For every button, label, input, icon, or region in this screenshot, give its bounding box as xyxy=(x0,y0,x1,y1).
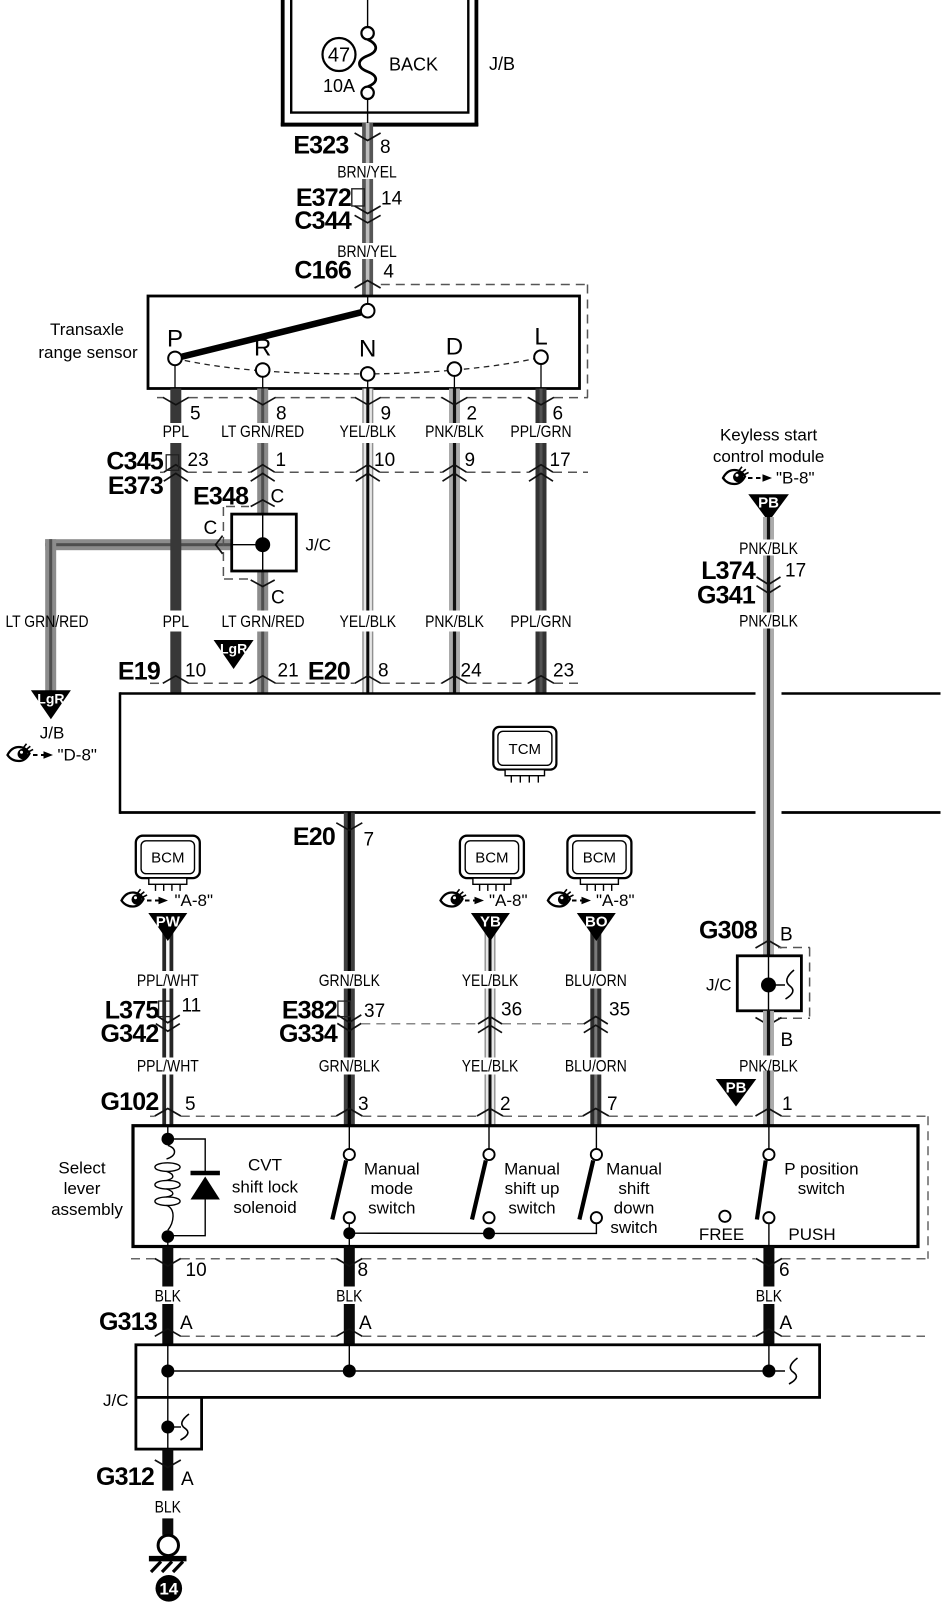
wire YEL/BLK middle segment xyxy=(485,989,496,1058)
wire PNK/BLK to select lever xyxy=(763,1071,774,1126)
svg-text:Transaxle: Transaxle xyxy=(50,320,124,339)
wire BLK segment 2 (10) xyxy=(162,1304,173,1345)
svg-text:BCM: BCM xyxy=(151,850,184,867)
transaxle range sensor dashed connector boundary xyxy=(157,285,588,398)
connector C345/E373 chevrons pin 10 xyxy=(356,450,395,481)
svg-text:G102: G102 xyxy=(101,1088,159,1116)
svg-text:BLK: BLK xyxy=(155,1498,182,1517)
svg-text:BLU/ORN: BLU/ORN xyxy=(565,1057,627,1076)
wire BLK pin 8 xyxy=(344,1247,355,1287)
svg-text:PNK/BLK: PNK/BLK xyxy=(425,613,484,632)
svg-text:BLK: BLK xyxy=(336,1287,363,1306)
connector C166 pin 4 xyxy=(294,256,394,288)
TCM box xyxy=(120,692,941,814)
J/C small box G312 branch xyxy=(136,1397,202,1449)
svg-text:PPL: PPL xyxy=(163,423,190,442)
svg-text:C344: C344 xyxy=(294,207,351,235)
svg-text:Manual: Manual xyxy=(364,1160,420,1179)
connector E372 / C344 pin 14 xyxy=(294,184,402,235)
wire color label LT GRN/RED 2 xyxy=(221,613,304,632)
svg-text:6: 6 xyxy=(779,1260,790,1281)
svg-text:GRN/BLK: GRN/BLK xyxy=(319,972,381,991)
eye symbol keyless xyxy=(723,467,749,484)
TCM connector pin 23 xyxy=(528,661,574,684)
svg-text:TCM: TCM xyxy=(509,741,542,758)
svg-text:"A-8": "A-8" xyxy=(596,891,635,910)
wire LT GRN/RED branch left from J/C E348 xyxy=(45,539,232,550)
destination triangle PW xyxy=(148,913,187,941)
svg-text:switch: switch xyxy=(508,1199,555,1218)
svg-text:LT GRN/RED: LT GRN/RED xyxy=(5,613,88,632)
svg-text:11: 11 xyxy=(182,995,202,1016)
range sensor pin 2 xyxy=(442,397,478,424)
ground symbol xyxy=(149,1535,187,1572)
svg-text:PNK/BLK: PNK/BLK xyxy=(739,540,798,559)
svg-text:PPL/WHT: PPL/WHT xyxy=(137,1057,199,1076)
svg-text:Keyless start: Keyless start xyxy=(720,426,818,445)
select lever pin 10 xyxy=(155,1259,207,1282)
wire color label GRN/BLK row1 xyxy=(319,972,381,991)
svg-text:A: A xyxy=(181,1469,194,1490)
wire color label YEL/BLK 2 xyxy=(340,613,397,632)
wire BLK segment 2 (6) xyxy=(763,1304,774,1345)
wire color label BLK (6) xyxy=(756,1287,783,1306)
svg-text:E373: E373 xyxy=(108,472,163,500)
svg-text:4: 4 xyxy=(383,262,394,283)
range sensor pin 9 xyxy=(355,397,391,424)
svg-text:G312: G312 xyxy=(96,1463,154,1491)
wire color label PPL/WHT row2 xyxy=(137,1057,199,1076)
J/C box G313 ground junction xyxy=(136,1345,820,1398)
wire PNK/BLK from range sensor xyxy=(449,389,460,424)
svg-text:"B-8": "B-8" xyxy=(776,469,815,488)
CVT shift lock solenoid xyxy=(155,1126,220,1247)
range sensor contact R xyxy=(254,335,271,389)
wire BLU/ORN from BCM xyxy=(590,916,601,971)
svg-text:9: 9 xyxy=(465,450,476,471)
svg-text:BO: BO xyxy=(585,914,608,931)
range sensor contact D xyxy=(446,334,463,389)
P position switch FREE contact xyxy=(719,1211,730,1222)
svg-text:J/B: J/B xyxy=(40,724,65,743)
J/C box G308 xyxy=(737,956,801,1011)
P position switch xyxy=(757,1126,775,1224)
wire PPL/WHT middle segment xyxy=(162,989,173,1058)
svg-text:B: B xyxy=(780,925,793,946)
wire PNK/BLK segment 3 to TCM xyxy=(449,632,460,694)
TCM monitor icon xyxy=(493,727,556,783)
dashed line E19/E20 row xyxy=(150,682,582,684)
svg-text:G341: G341 xyxy=(697,581,756,609)
svg-text:Manual: Manual xyxy=(606,1160,662,1179)
svg-text:J/C: J/C xyxy=(306,536,332,555)
svg-text:BLU/ORN: BLU/ORN xyxy=(565,972,627,991)
wire PPL/GRN segment 3 to TCM xyxy=(536,632,547,694)
ground number 14 xyxy=(156,1575,183,1602)
TCM connector labels E19 E20 xyxy=(118,658,350,686)
svg-text:R: R xyxy=(254,335,271,362)
connector G313 pin A (10) xyxy=(155,1313,193,1336)
wire color label PPL/GRN 2 xyxy=(510,613,571,632)
wire BRN/YEL segment 2 xyxy=(362,179,373,243)
svg-text:switch: switch xyxy=(610,1218,657,1237)
svg-text:2: 2 xyxy=(467,404,478,425)
connector E382 / G334 pin 37 xyxy=(279,996,385,1048)
svg-text:7: 7 xyxy=(607,1094,618,1115)
wire PPL/WHT from BCM xyxy=(162,916,173,971)
E348 bottom chevron C xyxy=(251,580,285,609)
wire BLK pin 6 xyxy=(763,1247,774,1287)
label Manual shift down switch xyxy=(606,1160,662,1238)
wire YEL/BLK to select lever assembly xyxy=(485,1075,496,1126)
dashed arrow to A-8 (2) xyxy=(465,897,484,905)
svg-text:6: 6 xyxy=(553,404,564,425)
svg-text:5: 5 xyxy=(190,404,201,425)
svg-text:17: 17 xyxy=(550,450,571,471)
svg-text:CVT: CVT xyxy=(248,1156,282,1175)
J/C box E348 xyxy=(232,514,297,571)
svg-text:solenoid: solenoid xyxy=(233,1198,296,1217)
svg-text:YEL/BLK: YEL/BLK xyxy=(340,613,397,632)
connector E382/G334 pin 35 xyxy=(584,1000,630,1033)
svg-text:35: 35 xyxy=(609,1000,630,1021)
svg-text:37: 37 xyxy=(364,1001,385,1022)
TCM connector pin 8 xyxy=(355,661,389,684)
wire PNK/BLK segment 2 xyxy=(449,443,460,611)
svg-text:PNK/BLK: PNK/BLK xyxy=(739,612,798,631)
connector C345/E373 chevrons pin 17 xyxy=(529,450,571,481)
select lever connector pin 5 xyxy=(155,1094,196,1116)
range sensor contact P xyxy=(167,326,183,389)
dashed arrow to A-8 (1) xyxy=(147,897,168,905)
dashed arrow to D-8 xyxy=(33,751,53,759)
svg-text:7: 7 xyxy=(364,829,375,850)
svg-text:"D-8": "D-8" xyxy=(58,746,97,765)
wire BRN/YEL from J/B fuse 47 xyxy=(362,123,373,163)
svg-text:E19: E19 xyxy=(118,658,160,686)
svg-text:A: A xyxy=(359,1313,372,1334)
wire PNK/BLK keyless long segment through TCM xyxy=(763,629,774,956)
svg-text:PPL: PPL xyxy=(163,613,190,632)
svg-text:down: down xyxy=(614,1199,655,1218)
svg-text:shift lock: shift lock xyxy=(232,1178,299,1197)
label P position switch xyxy=(784,1160,858,1199)
svg-text:2: 2 xyxy=(500,1094,511,1115)
svg-text:9: 9 xyxy=(381,404,392,425)
svg-text:10: 10 xyxy=(374,450,395,471)
svg-text:PW: PW xyxy=(156,914,181,931)
svg-text:YEL/BLK: YEL/BLK xyxy=(462,972,519,991)
svg-text:PPL/GRN: PPL/GRN xyxy=(510,423,571,442)
eye symbol BCM 3 xyxy=(548,889,574,906)
svg-text:E20: E20 xyxy=(308,658,350,686)
range sensor pin 5 xyxy=(163,397,201,424)
svg-text:LgR: LgR xyxy=(220,641,247,657)
svg-text:C: C xyxy=(271,487,285,508)
svg-text:Select: Select xyxy=(58,1159,106,1178)
eye symbol BCM 2 xyxy=(441,889,467,906)
wire color label BLK (10) xyxy=(155,1287,182,1306)
svg-text:LT GRN/RED: LT GRN/RED xyxy=(221,423,304,442)
source triangle PB xyxy=(748,494,789,522)
wire LT GRN/RED branch down to LgR xyxy=(45,539,56,691)
wire color label PPL xyxy=(163,423,190,442)
svg-text:PNK/BLK: PNK/BLK xyxy=(425,423,484,442)
svg-text:shift up: shift up xyxy=(505,1179,560,1198)
wire YEL/BLK segment 2 xyxy=(362,443,373,611)
svg-text:J/C: J/C xyxy=(103,1391,129,1410)
destination triangle LgR to J/B D-8 xyxy=(31,690,71,719)
range sensor pin 6 xyxy=(528,397,563,424)
common wire between switches xyxy=(349,1223,596,1233)
svg-text:PPL/WHT: PPL/WHT xyxy=(137,972,199,991)
fuse 47 10A BACK xyxy=(323,0,376,124)
svg-text:47: 47 xyxy=(328,45,350,67)
svg-text:G313: G313 xyxy=(99,1308,157,1336)
connector G308 pin B top xyxy=(699,917,793,948)
svg-text:LT GRN/RED: LT GRN/RED xyxy=(221,613,304,632)
svg-text:C166: C166 xyxy=(294,256,351,284)
range sensor contact L xyxy=(534,324,548,389)
svg-text:BCM: BCM xyxy=(475,850,508,867)
destination triangle BO xyxy=(577,913,616,941)
wire color label BRN/YEL xyxy=(337,163,397,182)
wire PPL/WHT to select lever assembly xyxy=(162,1075,173,1126)
svg-text:23: 23 xyxy=(553,661,574,682)
dashed line G102 row / select lever boundary top xyxy=(150,1115,928,1117)
svg-text:E323: E323 xyxy=(293,132,348,160)
dashed line C345/E373 row xyxy=(160,471,588,473)
svg-text:range sensor: range sensor xyxy=(38,343,138,362)
select lever connector pin 2 xyxy=(477,1094,511,1116)
svg-text:8: 8 xyxy=(380,137,391,158)
svg-text:assembly: assembly xyxy=(51,1200,123,1219)
svg-text:switch: switch xyxy=(368,1199,415,1218)
svg-text:G334: G334 xyxy=(279,1020,338,1048)
svg-text:24: 24 xyxy=(461,661,483,682)
wire BLK segment 2 (8) xyxy=(344,1304,355,1345)
svg-text:PPL/GRN: PPL/GRN xyxy=(510,613,571,632)
destination triangle LgR near E19 xyxy=(214,640,254,669)
svg-text:switch: switch xyxy=(798,1179,845,1198)
select lever pin 6 xyxy=(756,1259,790,1282)
TCM connector pin 10 xyxy=(163,661,206,684)
wire PPL segment 3 to TCM xyxy=(170,632,181,694)
svg-text:BLK: BLK xyxy=(155,1287,182,1306)
manual shift up switch xyxy=(472,1126,495,1224)
svg-text:D: D xyxy=(446,334,463,361)
wire PPL from range sensor xyxy=(170,389,181,424)
svg-text:"A-8": "A-8" xyxy=(175,891,214,910)
svg-text:L: L xyxy=(534,324,547,351)
svg-text:8: 8 xyxy=(378,661,389,682)
svg-text:FREE: FREE xyxy=(699,1225,744,1244)
svg-text:8: 8 xyxy=(276,404,287,425)
BCM module icon 1 xyxy=(136,836,200,891)
svg-text:shift: shift xyxy=(618,1179,649,1198)
range sensor selector lever P position xyxy=(175,311,368,359)
wire color label YEL/BLK row2 xyxy=(462,1057,519,1076)
svg-text:PB: PB xyxy=(726,1080,747,1097)
dashed arrow to B-8 xyxy=(748,474,772,482)
wire color label GRN/BLK row2 xyxy=(319,1057,381,1076)
wire color label BLK G312 xyxy=(155,1498,182,1517)
connector G313 pin A (8) xyxy=(336,1313,372,1336)
label Select lever assembly xyxy=(51,1159,123,1220)
dashed arrow to A-8 (3) xyxy=(572,897,591,905)
connector C345/E373 chevrons pin 9 xyxy=(443,450,476,481)
svg-text:YEL/BLK: YEL/BLK xyxy=(340,423,397,442)
transaxle range sensor box xyxy=(148,296,580,389)
manual mode switch xyxy=(332,1126,355,1224)
wire color label PNK/BLK keyless xyxy=(739,540,798,559)
wire BLU/ORN to select lever assembly xyxy=(590,1075,601,1126)
svg-text:10: 10 xyxy=(185,661,206,682)
svg-text:A: A xyxy=(780,1313,793,1334)
range sensor contact N xyxy=(359,336,376,389)
connector G313 pin A (6) xyxy=(756,1313,793,1336)
connector E382/G334 pin 36 xyxy=(478,1000,522,1033)
wire BLK to ground G312 xyxy=(162,1449,173,1491)
svg-text:control module: control module xyxy=(713,447,825,466)
svg-text:J/B: J/B xyxy=(489,54,515,74)
svg-text:A: A xyxy=(180,1313,193,1334)
wire color label PPL/WHT row1 xyxy=(137,972,199,991)
TCM connector pin 24 xyxy=(442,661,483,684)
wire GRN/BLK to select lever assembly xyxy=(344,1075,355,1126)
svg-text:P position: P position xyxy=(784,1160,858,1179)
manual shift down switch xyxy=(579,1126,602,1224)
wire color label PNK/BLK keyless 2 xyxy=(739,612,798,631)
wire color label PPL 2 xyxy=(163,613,190,632)
dashed line G313 row xyxy=(181,1335,925,1337)
label Transaxle range sensor xyxy=(38,320,138,362)
svg-text:BCM: BCM xyxy=(583,850,616,867)
E348 left chevron C xyxy=(204,518,223,554)
svg-text:14: 14 xyxy=(159,1580,178,1599)
connector C345 / E373 labels and housing xyxy=(106,448,178,500)
svg-text:mode: mode xyxy=(371,1179,414,1198)
BCM module icon 3 xyxy=(567,836,631,891)
wire YEL/BLK from BCM xyxy=(485,916,496,971)
labels FREE PUSH xyxy=(699,1225,836,1244)
dashed line E382/G334 row xyxy=(361,1023,584,1025)
svg-text:N: N xyxy=(359,336,376,363)
svg-text:C: C xyxy=(271,588,285,609)
wire GRN/BLK from TCM E20 pin 7 xyxy=(344,813,355,972)
wire color label LT GRN/RED xyxy=(221,423,304,442)
svg-text:17: 17 xyxy=(785,560,806,581)
svg-text:36: 36 xyxy=(501,1000,522,1021)
connector L374 / G341 pin 17 xyxy=(697,557,806,609)
range sensor rotary contact arc (dashed) xyxy=(175,357,541,374)
svg-text:J/C: J/C xyxy=(706,976,732,995)
select lever assembly dashed boundary right/bottom xyxy=(131,1116,928,1259)
svg-text:1: 1 xyxy=(276,450,287,471)
svg-text:YEL/BLK: YEL/BLK xyxy=(462,1057,519,1076)
wire LT GRN/RED segment 2 xyxy=(257,443,268,514)
label CVT shift lock solenoid xyxy=(232,1156,299,1218)
TCM connector pin 21 xyxy=(250,661,299,684)
svg-text:"A-8": "A-8" xyxy=(489,891,528,910)
connector G312 pin A xyxy=(96,1460,194,1491)
wire PNK/BLK below G308 xyxy=(763,1011,774,1056)
svg-text:8: 8 xyxy=(358,1260,369,1281)
range sensor common pivot contact xyxy=(361,296,375,318)
eye symbol see J/B xyxy=(8,744,34,761)
wire color label BLU/ORN row2 xyxy=(565,1057,627,1076)
svg-text:G342: G342 xyxy=(101,1020,159,1048)
svg-text:Manual: Manual xyxy=(504,1160,560,1179)
E348 top chevron C xyxy=(251,487,285,508)
wire color label YEL/BLK xyxy=(340,423,397,442)
connector L375 / G342 pin 11 xyxy=(101,995,202,1048)
select lever connector pin 3 xyxy=(336,1094,368,1116)
destination triangle YB xyxy=(471,913,510,941)
wire color label PPL/GRN xyxy=(510,423,571,442)
svg-text:1: 1 xyxy=(782,1094,793,1115)
svg-text:lever: lever xyxy=(64,1179,101,1198)
wire BLK segment to ground xyxy=(162,1518,173,1535)
wire BRN/YEL segment 3 xyxy=(362,259,373,296)
wire BLK pin 10 xyxy=(162,1247,173,1287)
wire PNK/BLK keyless segment 2 xyxy=(763,556,774,613)
select lever pin 8 xyxy=(336,1259,368,1282)
destination triangle PB 2 xyxy=(716,1079,757,1107)
wire color label PNK/BLK 2 xyxy=(425,613,484,632)
connector E323 pin 8 xyxy=(293,132,390,160)
svg-text:G308: G308 xyxy=(699,917,758,945)
svg-text:BLK: BLK xyxy=(756,1287,783,1306)
connector G308 pin B bottom xyxy=(756,1018,794,1052)
wire PNK/BLK keyless segment 1 xyxy=(763,517,774,540)
svg-text:23: 23 xyxy=(188,450,209,471)
wire color label BLU/ORN row1 xyxy=(565,972,627,991)
svg-text:PB: PB xyxy=(758,495,779,512)
svg-text:21: 21 xyxy=(278,661,299,682)
junction connector E348 dashed boundary xyxy=(223,507,250,580)
wire GRN/BLK middle segment xyxy=(344,989,355,1058)
range sensor pin 8 xyxy=(250,397,287,424)
wire color label PNK/BLK bottom xyxy=(739,1057,798,1076)
svg-text:3: 3 xyxy=(358,1094,369,1115)
svg-text:10A: 10A xyxy=(323,76,355,96)
svg-text:14: 14 xyxy=(381,189,403,210)
svg-text:E348: E348 xyxy=(193,483,249,511)
svg-text:GRN/BLK: GRN/BLK xyxy=(319,1057,381,1076)
wire color label BRN/YEL 2 xyxy=(337,243,397,262)
label Keyless start control module xyxy=(713,426,825,466)
svg-text:10: 10 xyxy=(186,1260,207,1281)
wire LT GRN/RED from range sensor xyxy=(257,389,268,424)
wire LT GRN/RED segment 3 to TCM xyxy=(257,571,268,611)
svg-text:5: 5 xyxy=(185,1094,196,1115)
junction block J/B fuse box xyxy=(281,0,479,126)
wire YEL/BLK segment 3 to TCM xyxy=(362,632,373,694)
svg-text:B: B xyxy=(781,1030,794,1051)
svg-text:BACK: BACK xyxy=(389,55,438,75)
wire BLU/ORN middle segment xyxy=(590,989,601,1058)
wire color label LT GRN/RED branch xyxy=(5,613,88,632)
wire PPL/GRN segment 2 xyxy=(536,443,547,611)
svg-text:P: P xyxy=(167,326,183,353)
connector C345/E373 chevrons pin 23 xyxy=(164,450,209,481)
connector C345/E373 chevrons pin 1 xyxy=(251,450,286,481)
wire color label YEL/BLK row1 xyxy=(462,972,519,991)
connector E20 pin 7 xyxy=(293,823,374,851)
label Manual mode switch xyxy=(364,1160,420,1218)
select lever assembly box xyxy=(133,1126,918,1247)
